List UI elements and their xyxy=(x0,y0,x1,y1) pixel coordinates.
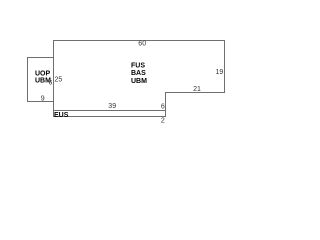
svg-text:9: 9 xyxy=(41,95,45,102)
EUS strip rectangle xyxy=(54,111,166,117)
svg-text:39: 39 xyxy=(108,103,116,110)
svg-text:25: 25 xyxy=(55,77,63,84)
svg-text:BAS: BAS xyxy=(131,70,146,77)
svg-text:19: 19 xyxy=(216,69,224,76)
svg-text:6: 6 xyxy=(161,103,165,110)
svg-text:EUS: EUS xyxy=(54,112,69,119)
svg-text:21: 21 xyxy=(193,86,201,93)
main building outline (FUS/BAS/UBM section) xyxy=(54,41,225,111)
svg-text:2: 2 xyxy=(161,118,165,125)
UOP/UBM porch box xyxy=(28,58,54,102)
svg-text:60: 60 xyxy=(138,41,146,48)
svg-text:FUS: FUS xyxy=(131,63,145,70)
svg-text:UOP: UOP xyxy=(35,71,51,78)
svg-text:UBM: UBM xyxy=(131,78,147,85)
svg-text:6: 6 xyxy=(49,79,53,86)
